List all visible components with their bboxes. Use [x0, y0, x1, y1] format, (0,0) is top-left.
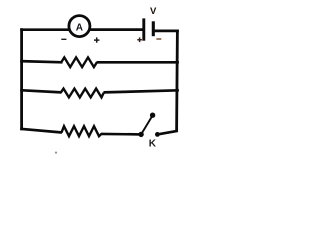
- op: ammeter U1 circle: [69, 16, 90, 37]
- stray speck mark: [55, 152, 57, 154]
- resistor R2 (row 3): [61, 89, 104, 98]
- wire: left vertical rail: [20, 28, 23, 130]
- switch K hinge dot: [138, 132, 143, 137]
- wire: row2 left segment: [20, 61, 62, 62]
- svg-text:K: K: [149, 139, 157, 150]
- wire: row3 right segment: [104, 90, 179, 92]
- label plus of ammeter: [94, 37, 99, 42]
- wire: row3 left segment: [20, 90, 61, 92]
- switch K contact dot: [155, 132, 160, 137]
- label plus of battery: [137, 37, 142, 42]
- wire: row2 right segment: [97, 61, 179, 64]
- switch K lever arm: [141, 116, 152, 135]
- label minus of ammeter: [61, 39, 66, 40]
- battery B1 positive plate (long): [142, 18, 145, 40]
- label minus of battery: [156, 38, 161, 39]
- wire: bottom rail middle segment (resistor to switch): [101, 133, 141, 136]
- wire: top rail middle segment (ammeter to battery): [90, 28, 143, 31]
- wire: top rail left segment (corner to ammeter): [20, 28, 69, 31]
- svg-text:V: V: [150, 6, 157, 17]
- resistor R3 (bottom row): [62, 126, 102, 136]
- switch K lever tip dot: [150, 113, 155, 118]
- wire: bottom rail right segment (switch to right rail): [157, 131, 178, 135]
- resistor R1 (row 2): [61, 57, 97, 67]
- wire: bottom rail left segment: [20, 129, 62, 133]
- wire: right vertical rail: [175, 30, 179, 132]
- battery B1 negative plate (short): [152, 21, 155, 36]
- svg-text:A: A: [76, 23, 83, 34]
- wire: top rail right segment (battery to right rail): [155, 30, 179, 33]
